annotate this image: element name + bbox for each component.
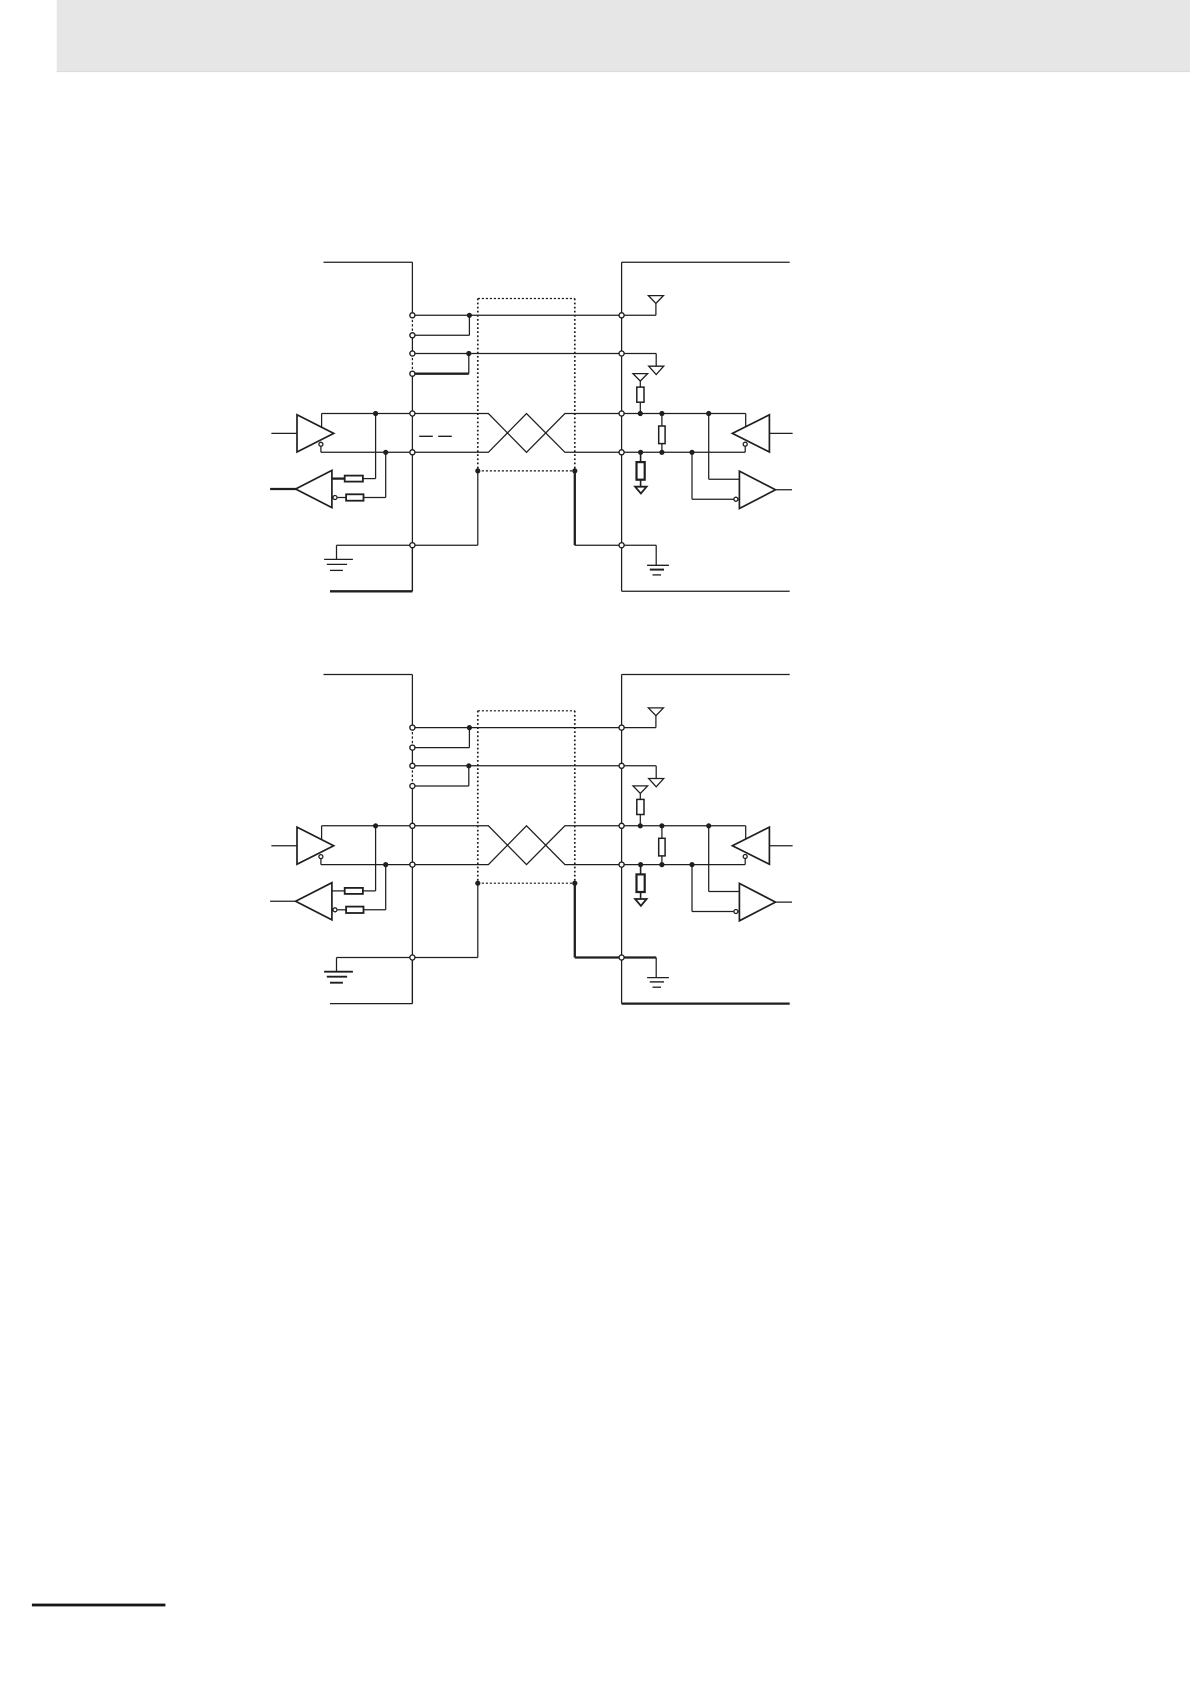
bubble: U1 inverting output	[319, 442, 323, 446]
power V4 symbol	[635, 899, 647, 906]
wire: pin1-pin2 jumper vertical	[468, 728, 470, 748]
wire: pin4 jumper horizontal	[412, 785, 468, 787]
pin 1 terminal (left device)	[410, 725, 415, 730]
bubble: U3 inverting output	[743, 442, 747, 446]
wire: R5c lead to RDA	[639, 815, 641, 826]
wire: left device vertical below SG	[411, 958, 413, 1004]
pin SDB terminal (left device)	[410, 450, 415, 455]
wire: U4 plus input	[709, 478, 740, 480]
pin SG terminal (right device)	[619, 543, 624, 548]
wire: U5 inverting output stub	[320, 859, 322, 865]
wire: pin3-pin4 jumper vertical	[468, 354, 470, 374]
bubble: U8 inverting input	[734, 910, 738, 914]
resistor R5e pull-down	[637, 874, 645, 892]
op-amp U3 driver (right device)	[732, 415, 769, 452]
wire: left SG run	[337, 957, 478, 959]
wire: U6 output	[270, 900, 296, 902]
wire: U6 plus input segment	[332, 890, 345, 892]
pin SG terminal (left device)	[410, 955, 415, 960]
wire: device A top edge (diagram 1)	[324, 261, 413, 263]
wire: rail segment pin4 to bottom edge	[411, 374, 413, 592]
wire: pin1-pin2 jumper vertical	[468, 315, 470, 335]
wire: U2 plus input segment	[332, 477, 345, 479]
wire: RDA tap vertical	[375, 414, 377, 479]
wire: left shield drain to SG	[477, 471, 479, 545]
node: shield drain left	[475, 468, 480, 473]
resistor R5b (receiver input)	[346, 907, 363, 913]
wire: U3 inverting output stub	[744, 447, 746, 453]
resistor R5a (receiver input)	[345, 888, 363, 894]
op-amp U1 driver (left device)	[297, 415, 334, 452]
wire: U8 minus input	[692, 911, 734, 913]
node: junction RDA tap	[373, 411, 378, 416]
power V3 symbol	[633, 374, 648, 382]
wire: R1e lower lead	[640, 480, 642, 487]
wire: right ground stem	[655, 958, 657, 978]
resistor R1e pull-down	[637, 462, 645, 480]
wire: U5 input	[271, 845, 297, 847]
power V4 symbol	[635, 487, 647, 494]
wire: U7 non-inverting output stub	[745, 826, 747, 839]
pin SDA terminal (left device)	[410, 411, 415, 416]
pin 4 terminal (left device)	[410, 783, 415, 788]
footer rule	[32, 1604, 166, 1607]
wire: device A bottom edge	[330, 1003, 412, 1005]
pin B terminal (right device)	[619, 450, 624, 455]
power V2 wire (diagram 5)	[622, 765, 657, 767]
node: shield drain right	[572, 468, 577, 473]
op-amp U6 receiver (left device)	[296, 883, 332, 920]
wire: device B top edge (diagram 1)	[622, 261, 790, 263]
wire: device A top edge (diagram 5)	[324, 674, 413, 676]
wire: R1b lead to RDB tap	[364, 497, 386, 499]
wire: U4 minus input	[692, 498, 734, 500]
wire: R5d lower lead	[661, 856, 663, 865]
node: junction RDB tap	[383, 450, 388, 455]
power V1 wire (diagram 5)	[622, 727, 656, 729]
node: junction pull-up	[638, 411, 643, 416]
wire: device A terminal rail upper segment	[411, 262, 413, 315]
wire: left ground stem	[336, 545, 338, 559]
wire: U1 output to SDB terminal	[321, 451, 413, 453]
wire: RDB tap vertical	[385, 452, 387, 497]
node: junction RDA tap	[373, 823, 378, 828]
pin A terminal (right device)	[619, 411, 624, 416]
wire: dashed rail segment pin3-pin4	[411, 766, 413, 786]
power V1 stem	[655, 303, 657, 315]
node: junction receiver tap A	[706, 411, 711, 416]
wire: R5a lead to RDA tap	[363, 890, 376, 892]
wire: R1c lead to RDA	[639, 402, 641, 413]
wire: right ground stem	[655, 545, 657, 565]
ground (left device, diagram 1)	[324, 559, 353, 570]
ground (left device, diagram 5)	[324, 972, 353, 983]
wire: R5b lead to RDB tap	[364, 909, 386, 911]
wire: U5 output to SDB terminal	[321, 864, 413, 866]
power V1 wire (diagram 1)	[622, 314, 656, 316]
node: junction termination lower	[659, 450, 664, 455]
wire: R1b lead from bubble	[338, 497, 347, 499]
wire: twisted pair conductor A	[412, 826, 745, 865]
bubble: U5 inverting output	[319, 855, 323, 859]
wire: U1 inverting output stub	[320, 447, 322, 453]
op-amp U8 receiver (right device)	[739, 883, 775, 920]
wire: U7 input	[769, 845, 792, 847]
wire: R1d upper lead	[661, 414, 663, 427]
wire: device A bottom edge	[330, 590, 412, 592]
wire: RDA line pin1 to right device (diagram 1)	[412, 314, 621, 316]
wire: dashed rail segment pin1-pin2	[411, 728, 413, 748]
cable shield dotted box top (diagram 1)	[478, 298, 575, 300]
node: shield drain right	[572, 881, 577, 886]
wire: device B bottom edge	[622, 1002, 790, 1004]
pin SDA terminal (left device)	[410, 823, 415, 828]
wire: right shield drain to SG	[574, 883, 576, 957]
cable shield dotted box left	[477, 711, 479, 883]
pin 3 terminal (left device)	[410, 763, 415, 768]
wire: U3 input	[769, 432, 792, 434]
wire: U4 output	[776, 489, 793, 491]
bubble: U4 inverting input	[734, 497, 738, 501]
node: junction termination upper	[659, 411, 664, 416]
resistor R5c pull-up	[637, 799, 644, 814]
pin 1 terminal (left device)	[410, 313, 415, 318]
wire: device B bottom edge	[622, 590, 790, 592]
node: junction receiver tap B	[689, 450, 694, 455]
power V3 stem	[639, 793, 641, 799]
node: junction receiver tap B	[689, 862, 694, 867]
pin B terminal (right device)	[619, 862, 624, 867]
wire: R1e upper lead	[640, 452, 642, 462]
node: junction termination lower	[659, 862, 664, 867]
wire: device B terminal rail	[621, 675, 623, 1004]
wire: twisted pair conductor A	[412, 414, 745, 453]
wire: U4 plus input vertical	[708, 414, 710, 480]
wire: pin2 jumper horizontal	[412, 747, 469, 749]
wire: RDB line pin3 to right device (diagram 1)	[412, 353, 621, 355]
pin 2 terminal (left device)	[410, 745, 415, 750]
wire: U8 plus input	[709, 891, 740, 893]
wire: R5e upper lead	[640, 865, 642, 875]
node: junction on pin1 line	[467, 313, 472, 318]
wire: U5 output to SDA terminal	[322, 825, 413, 827]
wire: U1 output to SDA terminal	[322, 413, 413, 415]
wire: rail segment pin2-pin3	[411, 748, 413, 766]
resistor R1b (receiver input)	[346, 494, 363, 500]
op-amp U5 driver (left device)	[297, 827, 334, 864]
power V3 symbol	[633, 786, 648, 794]
op-amp U7 driver (right device)	[732, 827, 769, 864]
power V2 stem	[655, 766, 657, 779]
wire: R1a lead to RDA tap	[363, 478, 376, 480]
wire: pin3-pin4 jumper vertical	[468, 766, 470, 786]
wire: U1 non-inverting output stub	[321, 414, 323, 428]
power V2 stem	[655, 354, 657, 367]
wire: RDB line pin3 to right device (diagram 5)	[412, 765, 621, 767]
cable shield dotted box left	[477, 299, 479, 471]
wire: pair continuation dashes	[419, 435, 452, 437]
pin RDB terminal (right device)	[619, 763, 624, 768]
cable shield dotted box right	[574, 299, 576, 471]
resistor R5d termination	[659, 838, 665, 856]
op-amp U2 receiver (left device)	[296, 470, 332, 507]
wire: left SG run	[337, 544, 478, 546]
wire: right SG run	[575, 544, 656, 546]
node: junction pull-up	[638, 823, 643, 828]
wire: U3 non-inverting output stub	[745, 414, 747, 427]
wire: rail segment pin2-pin3	[411, 335, 413, 353]
bubble: U2 inverting input	[333, 496, 337, 500]
wire: dashed rail segment pin3-pin4	[411, 354, 413, 374]
wire: R5b lead from bubble	[338, 909, 347, 911]
node: junction on pin3 line	[466, 763, 471, 768]
power V2 symbol	[649, 779, 664, 787]
header band	[57, 0, 1190, 72]
node: shield drain left	[475, 881, 480, 886]
node: junction on pin3 line	[466, 351, 471, 356]
ground (right device, diagram 1)	[647, 565, 669, 575]
wire: U8 output	[776, 901, 793, 903]
pin SDB terminal (left device)	[410, 862, 415, 867]
node: junction termination upper	[659, 823, 664, 828]
wire: U4 minus input vertical	[691, 452, 693, 499]
wire: RDB tap vertical	[385, 865, 387, 910]
wire: U8 minus input vertical	[691, 865, 693, 912]
pin RDA terminal (right device)	[619, 725, 624, 730]
wire: pin4 jumper horizontal	[412, 373, 468, 375]
ground (right device, diagram 5)	[647, 978, 669, 988]
wire: pin2 jumper horizontal	[412, 334, 469, 336]
wire: device B top edge (diagram 5)	[622, 674, 790, 676]
wire: device A terminal rail upper segment	[411, 675, 413, 728]
wire: U5 non-inverting output stub	[321, 826, 323, 840]
cable shield dotted box top (diagram 5)	[478, 710, 575, 712]
wire: R5d upper lead	[661, 826, 663, 839]
cable shield dotted box bottom	[478, 882, 575, 884]
wire: U7 inverting output stub	[744, 859, 746, 865]
wire: left device vertical below SG	[411, 545, 413, 591]
wire: twisted pair conductor B	[412, 414, 745, 453]
cable shield dotted box bottom	[478, 470, 575, 472]
power V1 symbol	[648, 296, 663, 304]
wire: RDA tap vertical	[375, 826, 377, 891]
power V3 stem	[639, 381, 641, 387]
resistor R1a (receiver input)	[345, 476, 363, 482]
wire: left ground stem	[336, 958, 338, 972]
wire: right shield drain to SG	[574, 471, 576, 545]
pin RDB terminal (right device)	[619, 351, 624, 356]
pin 3 terminal (left device)	[410, 351, 415, 356]
power V2 wire (diagram 1)	[622, 353, 657, 355]
power V2 symbol	[649, 366, 664, 374]
bubble: U7 inverting output	[743, 855, 747, 859]
node: junction pull-down	[638, 450, 643, 455]
node: junction receiver tap A	[706, 823, 711, 828]
pin 2 terminal (left device)	[410, 333, 415, 338]
wire: R1d lower lead	[661, 444, 663, 453]
wire: device B terminal rail	[621, 262, 623, 591]
wire: U1 input	[271, 432, 297, 434]
resistor R1d termination	[659, 426, 665, 444]
pin SG terminal (right device)	[619, 955, 624, 960]
wire: twisted pair conductor B	[412, 826, 745, 865]
wire: left shield drain to SG	[477, 883, 479, 957]
resistor R1c pull-up	[637, 387, 644, 402]
wire: right SG run	[575, 956, 656, 958]
pin SG terminal (left device)	[410, 543, 415, 548]
pin A terminal (right device)	[619, 823, 624, 828]
power V1 stem	[655, 716, 657, 728]
wire: R5e lower lead	[640, 892, 642, 899]
wire: dashed rail segment pin1-pin2	[411, 315, 413, 335]
node: junction RDB tap	[383, 862, 388, 867]
wire: U8 plus input vertical	[708, 826, 710, 892]
node: junction on pin1 line	[467, 725, 472, 730]
cable shield dotted box right	[574, 711, 576, 883]
wire: rail segment pin4 to bottom edge	[411, 786, 413, 1004]
wire: U2 output	[270, 488, 296, 490]
pin RDA terminal (right device)	[619, 313, 624, 318]
wire: RDA line pin1 to right device (diagram 5)	[412, 727, 621, 729]
node: junction pull-down	[638, 862, 643, 867]
pin 4 terminal (left device)	[410, 371, 415, 376]
op-amp U4 receiver (right device)	[739, 471, 775, 508]
bubble: U6 inverting input	[333, 908, 337, 912]
power V1 symbol	[648, 708, 663, 716]
